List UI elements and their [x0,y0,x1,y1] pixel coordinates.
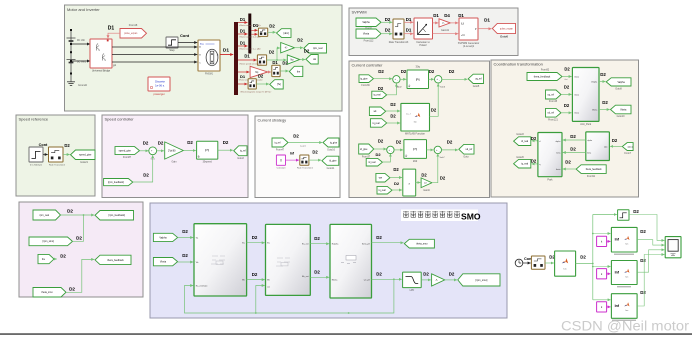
svg-text:From92: From92 [541,69,550,72]
subsystem area box: Coordination transformation [491,60,639,197]
wire rpm feedback to sum [133,155,153,182]
wire ud_ref to anti_park [561,112,572,114]
svg-text:d: d [539,141,540,143]
svg-text:[abc]: [abc] [284,32,290,35]
subsystem area box: Speed reference [16,115,95,196]
svg-text:Vbeta: Vbeta [160,261,167,264]
svg-text:Goto22: Goto22 [516,133,524,136]
svg-text:D2: D2 [401,69,407,74]
svg-text:fun: fun [626,277,629,279]
wire angle mux to the goto [280,70,288,72]
svg-text:Valpha: Valpha [617,81,625,84]
svg-text:0: 0 [280,158,282,162]
scope block [665,237,681,258]
wire k2 to fn2 [607,273,611,275]
svg-text:D2: D2 [314,270,320,275]
svg-text:theta_smo: theta_smo [41,291,53,294]
svg-text:From18: From18 [129,24,138,27]
DC voltage source V1 [67,38,76,41]
PI controller 20d [404,140,427,159]
block Cartesian to Polar2 [414,18,433,39]
Goto tag Vbeta [611,105,632,114]
wire RT to matlab fn [545,262,554,264]
block LPF [403,272,422,288]
PI controller 30q [407,70,429,89]
svg-text:D2: D2 [252,272,258,277]
wire k1 to fn1 [607,240,611,242]
svg-text:id_real: id_real [521,140,528,143]
svg-text:Valpha: Valpha [159,236,167,239]
svg-text:From112: From112 [364,40,374,43]
wire block3 theta to theta_smo [372,242,404,244]
gain Gain41 [439,19,450,27]
svg-text:m: m [217,55,219,57]
wire iq_give to sum [374,78,393,80]
svg-text:iq_give: iq_give [330,142,338,144]
From tag iq_ref (strategy) [272,138,288,147]
wire DC to bridge - [71,60,90,62]
svg-text:D2: D2 [223,140,229,145]
constant k2 [597,269,607,279]
svg-text:Vbeta: Vbeta [592,108,598,111]
From tag ud_ref (anti-park) [546,108,562,117]
wire wm branch to -K- gain [277,48,280,60]
Goto tag iq_ref [234,146,247,156]
wire bus1 to speed mux [238,59,257,61]
wire park d out [532,140,538,142]
svg-text:D2: D2 [304,48,310,53]
svg-text:uq_ref: uq_ref [547,93,554,96]
svg-text:D2: D2 [393,167,399,172]
svg-text:[rpm_smo]: [rpm_smo] [43,240,55,243]
block Clarke [586,132,610,161]
wire to fn3 [593,299,611,301]
sum Sub7 [434,146,441,153]
wire gate pulses to bridge [108,33,120,38]
svg-text:D2: D2 [258,74,264,79]
svg-text:30speed: 30speed [203,161,213,164]
svg-text:-: - [439,80,440,83]
svg-text:fun: fun [626,244,629,246]
svg-text:D2: D2 [297,38,303,43]
svg-text:D2: D2 [449,69,455,74]
svg-text:D2: D2 [640,258,646,263]
svg-text:[abc]: [abc] [628,146,633,148]
SMO subsystem block 3 (theta/speed estimator) [330,224,372,298]
svg-text:[Te]: [Te] [277,83,281,86]
svg-text:-: - [153,151,154,154]
subsystem area box: Current controller [349,61,490,198]
wire matlab fn up to sum2 [430,84,439,117]
svg-text:D2: D2 [378,138,384,143]
wire uq_ref to anti_park [561,93,572,95]
From tag Valpha (SVPWM) [356,18,381,27]
svg-text:D1: D1 [240,17,246,22]
wire bridge phase A to motor [112,46,197,48]
wire to fn2 [593,266,611,268]
Goto tag [rpm_feedback] [95,211,134,221]
Goto tag Valpha [606,78,631,86]
Goto tag pulse_expand Goto6 [492,23,515,33]
wire theta to park [563,168,576,170]
svg-text:speed_give: speed_give [79,154,92,157]
From tag iq_real (q loop) [372,91,387,98]
wire id_give to sum3 [374,148,387,150]
wire product to gain Ld [416,182,421,184]
bottom rule line [0,333,692,334]
From tag pulse_expand (gate pulses) [120,29,147,39]
svg-text:Sub7: Sub7 [439,157,445,159]
svg-text:-: - [397,80,398,83]
svg-text:From121: From121 [548,118,558,121]
svg-text:Polar2: Polar2 [419,44,427,47]
svg-text:powergui: powergui [154,92,165,96]
svg-text:Step: Step [169,49,175,52]
svg-text:Eb_est: Eb_est [302,275,309,278]
From tag thera_feedback (park theta) [576,165,606,174]
svg-text:pulse_expan: pulse_expan [500,28,514,30]
Goto tag uq_ref [468,74,483,83]
svg-text:D2: D2 [431,107,437,112]
From tag iq_real (decouple) [370,119,386,128]
From tag Valpha (SMO) [153,233,177,241]
MATLAB Fcn block new exponential law [611,294,637,319]
wire iq_ref to iq_give [288,142,322,144]
block PMSM machine [198,40,220,71]
wire gain41 to svpwm gen [450,22,458,24]
wire to step compare [593,214,617,216]
svg-text:-K-: -K- [284,48,287,50]
svg-text:Speed reference: Speed reference [19,116,49,121]
wire sum2 to uq_ref [442,78,468,80]
svg-text:D2: D2 [600,72,606,77]
wire block3 we to LPF [372,278,402,280]
svg-text:D2: D2 [187,140,193,145]
wire rpm_real to rpm_feedback [61,214,95,216]
svg-text:D2: D2 [376,235,382,240]
svg-text:iq_give: iq_give [360,78,368,80]
wire Np to wk goto [300,59,306,61]
svg-text:0 0 2000rpm: 0 0 2000rpm [30,163,42,166]
feedback wire we_est to observers [185,279,394,313]
Goto tag ud_ref [459,144,474,154]
block step compare [618,210,629,221]
wire PI to sum2 [429,78,434,80]
From tag Vbeta (SMO) [153,258,177,266]
svg-text:Current controller: Current controller [352,62,384,67]
svg-text:<itex|: <itex| [574,75,579,78]
svg-text:D2: D2 [564,85,570,90]
From tag speed_give [115,147,140,155]
svg-text:D2: D2 [447,139,453,144]
svg-text:Goto5: Goto5 [473,85,480,88]
gain Gain6 Ld [421,178,432,188]
distribution wire vertical [592,215,594,300]
svg-text:D2: D2 [60,253,66,258]
svg-text:Sub6: Sub6 [440,86,446,88]
sum Sub6 [435,76,442,83]
svg-text:thera_feedback: thera_feedback [107,259,124,262]
svg-text:iq_real: iq_real [374,94,381,97]
svg-text:thera_feedback: thera_feedback [586,168,603,171]
wire bus1 to bus2 signal c [238,45,248,47]
svg-text:D2: D2 [640,290,646,295]
svg-text:-: - [391,150,392,153]
svg-text:PI: PI [413,147,417,152]
svg-text:theta_pll: theta_pll [362,243,370,246]
svg-text:30q: 30q [416,64,421,68]
svg-text:iq_ref: iq_ref [275,141,281,144]
svg-text:D2: D2 [64,143,70,148]
svg-text:D2: D2 [293,133,299,138]
wire block2 Ea_est to block3 [310,243,329,245]
svg-text:Discrete: Discrete [155,79,165,83]
svg-text:PI: PI [416,77,420,82]
svg-text:D1: D1 [244,53,250,58]
wire iq_real to matlab fn [387,122,400,124]
Goto tag [Te] [270,80,284,89]
svg-text:D2: D2 [376,272,382,277]
svg-text:rpm_real: rpm_real [40,214,50,217]
svg-text:iq_real: iq_real [373,122,380,125]
svg-text:thet: thet [564,78,568,81]
constant k1 [597,236,607,246]
svg-text:Goto20: Goto20 [516,156,524,159]
Goto tag speed_give [71,150,96,160]
bus selector bar 2 [248,14,251,54]
clock source [515,259,523,267]
svg-text:id_give: id_give [360,149,368,151]
svg-text:D2: D2 [570,134,576,139]
block Anti_Park [572,68,599,122]
feedback branch to block2 we input [256,286,265,314]
wire iq_real up to sum [387,84,397,95]
svg-text:Goto: Goto [463,156,469,159]
svg-text:Motor and Inverter: Motor and Inverter [67,7,100,12]
svg-text:D1: D1 [272,60,278,65]
svg-text:Ealpha: Ealpha [332,244,339,246]
svg-text:(2-Level)1: (2-Level)1 [463,45,475,48]
wire Vbeta to rate transition [381,33,392,35]
svg-text:Anti_Park: Anti_Park [580,123,592,126]
svg-text:D2: D2 [394,181,400,186]
svg-text:D2: D2 [390,114,396,119]
svg-text:PI: PI [205,148,209,153]
svg-text:<Rotor speed wm (rad/s)>: <Rotor speed wm (rad/s)> [239,62,263,65]
svg-text:D2: D2 [429,69,435,74]
ground symbol Ground2 [67,80,75,86]
wire gain to PI [183,150,196,152]
wire gain to rpm_smo [445,279,457,281]
svg-text:DC Volt: DC Volt [77,39,85,42]
svg-text:D1: D1 [223,48,229,54]
block SVPWM Generator (2-Level)1 [459,18,478,40]
svg-text:20d: 20d [413,159,418,163]
svg-text:<Stator current is_a (A)>: <Stator current is_a (A)> [239,24,262,27]
block Rate Transition1 [300,155,309,165]
block MATLAB Function (time) [555,251,576,276]
svg-text:D2: D2 [269,49,275,54]
svg-text:Current strategy: Current strategy [258,117,287,122]
Goto tag wk [306,55,318,65]
svg-text:-K-: -K- [435,280,438,282]
wire RT2 to speed_give [63,154,70,156]
block Rate Transition (clock) [531,256,545,269]
From tag theta_smo [33,288,66,298]
wire block2 Eb_est to block3 [310,276,329,278]
svg-text:Universal Bridge: Universal Bridge [92,70,111,73]
svg-text:PMSM1: PMSM1 [205,73,214,75]
svg-text:D2: D2 [565,159,571,164]
svg-text:Park: Park [547,178,553,181]
svg-text:iabc: iabc [604,146,608,148]
svg-text:D2: D2 [385,17,391,22]
wire Step to motor Tm [178,42,197,44]
svg-text:D2: D2 [76,236,82,241]
svg-text:From47: From47 [276,149,285,152]
Goto tag theta_smo [404,239,434,248]
wire sum to gain [157,150,164,152]
constant k3 [597,302,607,312]
wire RT13 to cartesian in2 [404,33,413,35]
svg-text:iq_ref: iq_ref [240,150,246,153]
svg-text:CSDN @Neil motor: CSDN @Neil motor [561,319,690,334]
block MATLAB Function (decoupling) [401,103,430,131]
gain rpm scale (SMO) [432,274,445,286]
block Rate Transition2 [49,147,64,162]
svg-text:-K-: -K- [442,23,445,25]
svg-text:D1: D1 [240,28,246,33]
svg-text:D1: D1 [240,74,246,79]
svg-text:D2: D2 [143,172,149,177]
wire Vbeta to SMO block1 [178,261,194,263]
svg-text:D2: D2 [69,287,75,292]
svg-text:D1: D1 [240,40,246,45]
wire cartesian angle to svpwm gen [433,33,459,35]
svg-text:Gain41: Gain41 [441,29,450,32]
block powergui [148,77,170,91]
wire anti_park to Vbeta goto [599,109,610,111]
wire bus1 to angle gain [238,71,249,73]
svg-text:[rpm_feedback]: [rpm_feedback] [109,214,126,217]
svg-text:1e-06 s.: 1e-06 s. [155,84,165,88]
svg-text:<itex|: <itex| [574,93,579,96]
From tag [rpm_feedback] [104,179,133,186]
svg-text:From91: From91 [587,175,596,178]
svg-text:D1: D1 [253,23,259,28]
wire bus1 to bus2 signal a [238,22,248,24]
svg-text:SVPWM: SVPWM [352,9,367,14]
block Product2 [403,169,416,196]
wire Valpha to rate transition [381,21,392,23]
svg-text:ud_ref: ud_ref [547,112,554,115]
svg-text:D2: D2 [633,209,639,214]
wire theta to anti_park [562,76,572,78]
svg-text:|U|: |U| [461,22,464,25]
rate transition mux for currents [258,28,267,36]
wire sum3 to PI 20d [394,149,403,151]
wire torque mux to Te goto [256,83,269,85]
svg-text:fun: fun [626,310,629,312]
svg-text:-: - [439,150,440,153]
svg-text:Ea_estimate: Ea_estimate [196,284,208,287]
Goto tag [rpm_smo] [458,274,500,286]
wire block1 Ea to block2 [247,242,265,244]
wire bridge phase C to motor [112,61,197,63]
svg-text:D2: D2 [158,140,164,145]
wire abc to clarke [610,145,622,147]
wire id_real to sum3 [382,154,390,162]
From tag id_real [366,158,382,166]
svg-text:D2: D2 [390,102,396,107]
Goto tag [abc] [277,29,292,38]
wire to fn1 [593,233,611,235]
block Park [538,133,562,177]
svg-text:D1: D1 [406,28,412,33]
svg-text:Gain6: Gain6 [423,189,430,192]
From tag rpm_real [33,210,61,220]
wire RT1 to id_give [309,159,321,161]
wire LPF to gain [421,279,431,281]
wire step to scope [629,215,664,241]
wire RT13 to cartesian in1 [404,21,413,23]
bus selector bar 1 [234,22,238,95]
wire fn2 to scope [637,250,664,272]
svg-text:Ea_est: Ea_est [302,243,309,246]
svg-text:Goto9: Goto9 [615,88,622,91]
wire svpwm gen to goto6 [478,28,492,30]
wire fn1 to scope [637,240,664,245]
From tag ww [376,173,390,182]
subsystem area box: adaptive SMO (lavender) [150,203,507,318]
svg-text:thera_feedback: thera_feedback [534,75,551,78]
From tag iq_real (product) [377,186,392,194]
svg-text:D4: D4 [444,13,450,18]
wire matlab fn to distribution node [576,263,593,265]
svg-text:Ground2: Ground2 [78,84,88,87]
svg-text:D2: D2 [375,152,381,157]
wire ww to product [390,177,402,179]
wire sum4 to ud_ref [442,149,459,151]
wire mux to abc goto [268,31,276,33]
svg-text:Cont: Cont [39,143,48,147]
From tag the [38,254,54,263]
wire bridge phase B to motor [112,54,197,56]
gain Np electrical speed [287,55,299,64]
title label: new exponential adaptive SMO [401,210,478,222]
svg-text:D2: D2 [449,271,455,276]
svg-text:speed_give: speed_give [119,149,132,152]
svg-text:∠U: ∠U [461,34,465,37]
wire bus1 to bus2 signal b [238,33,248,35]
gain 2*pi/60 [165,142,184,159]
sum speed error [149,147,157,155]
svg-text:D2: D2 [182,229,188,234]
svg-text:D2: D2 [580,254,586,259]
wire step to RT2 [43,154,48,156]
svg-text:we_pll: we_pll [364,279,370,281]
From tag Vbeta (SVPWM) [356,29,381,38]
wire anti_park to Valpha goto [599,81,605,83]
svg-text:Goto6: Goto6 [500,34,508,38]
svg-text:theta_smo: theta_smo [416,243,428,246]
svg-text:<Electromagnetic torque Te (N*: <Electromagnetic torque Te (N*m)> [240,90,272,93]
wire gain Ld up to sum4 [432,154,438,183]
svg-text:id_real: id_real [368,161,375,164]
svg-text:D2: D2 [378,86,384,91]
svg-text:D1: D1 [406,17,412,22]
svg-text:Valpha: Valpha [362,21,370,24]
